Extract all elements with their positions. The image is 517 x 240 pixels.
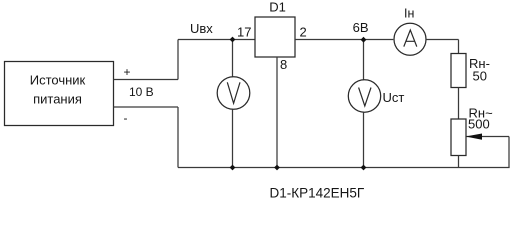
voltmeter PV2 circle xyxy=(348,80,380,112)
voltmeter PV1 circle xyxy=(217,77,250,110)
svg-text:D1: D1 xyxy=(269,0,286,15)
svg-text:10 В: 10 В xyxy=(129,85,154,99)
wire - drop to bottom rail xyxy=(177,107,179,168)
svg-text:-: - xyxy=(124,111,128,125)
wire top rail to D1 pin 17 xyxy=(178,39,255,41)
wire D1 pin 2 to node 6В xyxy=(295,39,393,41)
junction PV1 at bottom rail xyxy=(230,165,236,171)
regulator U1 (D1) body xyxy=(255,17,295,57)
svg-text:17: 17 xyxy=(237,25,251,40)
ammeter PA1 circle xyxy=(394,23,426,55)
junction node Uвх xyxy=(230,37,236,43)
resistor R1 (Rн-50) body xyxy=(451,54,466,88)
svg-text:8: 8 xyxy=(280,57,287,72)
wire potentiometer bottom to bottom rail xyxy=(458,156,460,168)
potentiometer wiper arrowhead xyxy=(466,134,483,140)
wire potentiometer wiper xyxy=(466,136,509,138)
svg-text:питания: питания xyxy=(33,92,82,107)
meter letter A of PA1 xyxy=(404,30,417,47)
wire + rise to top rail xyxy=(177,40,179,80)
wire node Uвх down to voltmeter PV1 xyxy=(232,40,234,77)
wire bottom rail xyxy=(178,167,510,169)
wire voltmeter PV1 to bottom rail xyxy=(232,109,234,167)
junction node 6В xyxy=(361,37,367,43)
wire + output of source xyxy=(114,79,179,81)
wire wiper return drop xyxy=(508,137,510,168)
wire - output of source xyxy=(114,106,179,108)
potentiometer R2 (Rн~500) body xyxy=(451,119,466,156)
svg-text:2: 2 xyxy=(300,25,307,40)
svg-text:Uст: Uст xyxy=(383,90,405,105)
svg-text:Источник: Источник xyxy=(30,73,86,88)
junction pin-8 at bottom rail xyxy=(274,165,280,171)
svg-text:D1-КР142ЕН5Г: D1-КР142ЕН5Г xyxy=(270,186,365,201)
meter letter V of PV2 xyxy=(359,88,371,107)
wire drop to resistor Rн-50 xyxy=(458,40,460,54)
wire between R1 and potentiometer xyxy=(458,88,460,120)
wire D1 pin 8 down to bottom rail xyxy=(276,57,278,168)
junction PV2 at bottom rail xyxy=(361,165,367,171)
svg-text:6В: 6В xyxy=(353,20,369,35)
power source box PS1 xyxy=(5,62,114,126)
wire voltmeter PV2 to bottom rail xyxy=(363,112,365,167)
svg-text:50: 50 xyxy=(473,69,487,84)
svg-text:Uвх: Uвх xyxy=(190,21,213,36)
meter letter V of PV1 xyxy=(227,82,240,103)
svg-text:+: + xyxy=(123,65,130,79)
svg-text:Iн: Iн xyxy=(404,7,414,21)
svg-text:500: 500 xyxy=(468,117,490,132)
wire ammeter to load branch xyxy=(426,39,459,41)
wire node 6В down to voltmeter PV2 xyxy=(363,40,365,81)
